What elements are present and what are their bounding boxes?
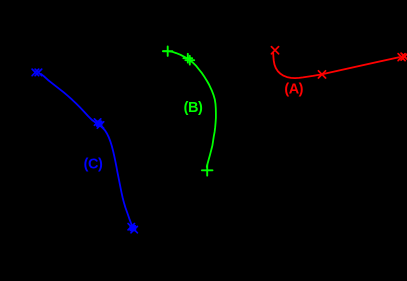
marker x C mid fill — [96, 120, 103, 127]
marker x C start 2 — [35, 69, 42, 76]
curve A (red locus) — [273, 53, 399, 78]
marker + B end — [202, 165, 213, 176]
marker x C mid 2 — [97, 122, 103, 128]
marker + B mid 2 — [185, 56, 194, 65]
marker + B mid 1 — [183, 54, 192, 63]
marker x A end 1 — [398, 54, 405, 61]
marker x C end fill — [129, 225, 136, 232]
marker x C end 1 — [128, 224, 134, 230]
marker x C end 2 — [131, 226, 137, 232]
marker x C mid 1 — [94, 119, 100, 125]
marker x A start — [271, 47, 278, 54]
marker x A end 2 — [401, 53, 407, 60]
curve B (green locus) — [163, 51, 216, 167]
marker x A mid — [318, 71, 325, 78]
marker + B start — [163, 47, 172, 56]
curve C (blue locus) — [41, 74, 132, 224]
svg-text:(C): (C) — [84, 157, 103, 173]
marker x C start 1 — [32, 69, 39, 76]
svg-text:(A): (A) — [284, 82, 303, 98]
svg-text:(B): (B) — [184, 100, 203, 116]
